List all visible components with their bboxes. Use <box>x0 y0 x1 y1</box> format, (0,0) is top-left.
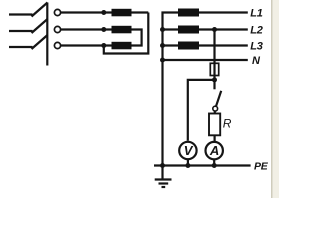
wire earth stub <box>161 166 163 180</box>
node bus-PE <box>160 163 165 168</box>
fuse F3 <box>178 42 199 50</box>
node L3 tap <box>101 43 106 48</box>
wire L3 switch to load <box>61 44 112 46</box>
wire L2 load to inner bracket <box>132 30 142 46</box>
node bus-L3 <box>160 43 165 48</box>
switch Q1 pole 1 blade <box>32 3 48 17</box>
svg-text:PE: PE <box>254 160 269 172</box>
wire voltmeter to PE <box>187 160 189 166</box>
fuse F1 <box>178 9 199 17</box>
wire V branch <box>188 80 215 141</box>
wire contact to resistor <box>214 111 216 114</box>
page edge band <box>271 0 273 198</box>
wire L2 switch to load <box>61 28 112 30</box>
wire L1 switch to load <box>61 11 112 13</box>
node V branch junction <box>212 77 217 82</box>
node bus-N <box>160 58 165 63</box>
switch Q1 pole 3 blade <box>32 35 48 49</box>
wire rail L3 <box>163 44 248 46</box>
fuse F2 <box>178 26 199 34</box>
voltmeter V circle <box>179 142 196 159</box>
switch Q1 pole 2 fixed contact <box>54 26 60 32</box>
node L2 tap <box>101 27 106 32</box>
wire measuring branch from L2 <box>213 30 215 64</box>
fuse F4 body <box>210 63 218 75</box>
earthing bus vertical <box>163 13 248 166</box>
load element E1 <box>112 9 132 16</box>
wire L1 load to corner <box>132 11 149 13</box>
svg-text:N: N <box>252 55 261 67</box>
node L2 branch tap <box>212 27 217 32</box>
svg-text:R: R <box>223 117 232 131</box>
node bus-L2 <box>160 27 165 32</box>
resistor R body <box>209 114 220 136</box>
switch Q1 pole 1 fixed contact <box>54 9 60 15</box>
load element E3 <box>112 42 132 50</box>
svg-text:L3: L3 <box>250 40 262 52</box>
svg-text:L1: L1 <box>250 7 262 19</box>
node L1 tap <box>101 10 106 15</box>
wire L2 input stub <box>9 30 33 32</box>
switch Q1 pole 2 blade <box>32 19 48 33</box>
switch Q1 pole 3 fixed contact <box>54 42 60 48</box>
node voltmeter PE <box>185 163 190 168</box>
wire rail L2 <box>163 28 248 30</box>
switch Q1 linkage bar <box>46 3 48 66</box>
wire through fuse F4 <box>213 63 215 89</box>
svg-text:A: A <box>209 143 219 158</box>
node ammeter PE <box>212 163 217 168</box>
switch S1 contact circle <box>213 106 218 111</box>
wire L3 input stub <box>9 46 33 48</box>
switch S1 blade <box>216 91 221 107</box>
wire resistor to ammeter <box>214 135 216 141</box>
wire outer bracket right side <box>104 13 149 54</box>
wire L1 input stub <box>9 13 33 15</box>
wire ammeter to PE <box>213 160 215 166</box>
load element E2 <box>112 26 132 34</box>
wire rail N <box>163 59 248 61</box>
ammeter A circle <box>206 142 223 159</box>
svg-text:L2: L2 <box>250 24 262 36</box>
earth symbol <box>155 178 172 180</box>
wire rail PE <box>154 164 251 166</box>
